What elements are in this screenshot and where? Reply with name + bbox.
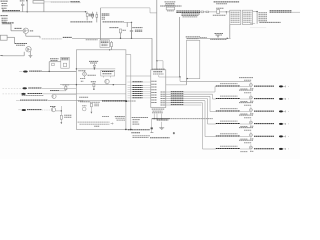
row1 wire bbox=[42, 87, 76, 89]
connector small bbox=[52, 63, 55, 65]
signal wire 5 bbox=[166, 100, 216, 136]
junction bbox=[120, 38, 132, 39]
wire bbox=[26, 34, 40, 39]
wire bbox=[2, 52, 25, 56]
wire bbox=[156, 114, 158, 119]
wire bbox=[44, 1, 70, 3]
capacitor C3 bbox=[130, 31, 133, 39]
label bbox=[94, 104, 99, 106]
LED row 2 bbox=[216, 90, 289, 101]
label bbox=[86, 39, 98, 41]
label Q1 bbox=[15, 27, 22, 29]
box M2 bbox=[61, 57, 69, 68]
box REG1 bbox=[230, 10, 241, 24]
fan row 8 bbox=[128, 97, 151, 99]
net label row bbox=[42, 38, 63, 40]
row2 dash bbox=[3, 93, 21, 95]
connector oval bbox=[23, 71, 28, 73]
wire bbox=[161, 122, 163, 128]
junction bbox=[256, 11, 257, 12]
wire bbox=[48, 62, 50, 72]
resistor R2 bbox=[92, 12, 94, 19]
fan row 3 bbox=[128, 87, 151, 89]
blob bbox=[151, 127, 153, 129]
wire bbox=[50, 90, 66, 92]
wire bbox=[256, 12, 258, 24]
row1 oval bbox=[23, 87, 27, 89]
wire bbox=[229, 25, 231, 39]
osc Y1 bbox=[217, 35, 219, 37]
connector J2 pin list bbox=[1, 16, 9, 23]
U2 left pins bbox=[151, 81, 157, 102]
fan row 2 bbox=[128, 85, 151, 87]
row2 oval bbox=[21, 93, 25, 95]
box M3 bbox=[101, 70, 115, 76]
capacitor C2 bbox=[28, 52, 32, 59]
wire topH bbox=[101, 7, 151, 9]
row1 dash bbox=[3, 87, 22, 89]
fan row 6 bbox=[128, 93, 151, 95]
net label IGN bbox=[2, 22, 14, 24]
label bottom bbox=[259, 21, 280, 23]
junction bbox=[109, 49, 110, 50]
label row dark bbox=[128, 129, 150, 131]
REG1 pins bbox=[231, 12, 240, 22]
net label VCC_5V bbox=[70, 1, 80, 3]
junction bbox=[27, 11, 28, 12]
label M1 bbox=[101, 41, 109, 46]
label R3box bbox=[186, 37, 200, 39]
LED row 3 bbox=[216, 103, 289, 114]
junction bbox=[76, 84, 77, 85]
junction bbox=[76, 68, 95, 69]
wire bbox=[217, 37, 219, 38]
label cluster bbox=[165, 2, 176, 5]
label 2row bbox=[133, 136, 151, 138]
wire bbox=[2, 24, 24, 31]
wire bbox=[56, 94, 76, 96]
transistor Q5 bbox=[51, 108, 55, 112]
top label2 bbox=[216, 3, 227, 5]
wire W2 bbox=[72, 37, 152, 39]
label M3 bbox=[102, 72, 114, 74]
label bbox=[131, 132, 140, 134]
net label GATE_ON bbox=[63, 36, 72, 38]
label J5 bbox=[50, 59, 59, 61]
label C3 value bbox=[135, 30, 143, 31]
diode D1 bbox=[93, 64, 95, 69]
signal wire 2 bbox=[166, 94, 216, 99]
wire bbox=[151, 119, 153, 133]
plus mark bbox=[173, 132, 175, 134]
wire bbox=[124, 21, 132, 23]
LED row 6 bbox=[216, 140, 289, 151]
label relay bbox=[89, 61, 98, 63]
net label PWR_IN bbox=[2, 10, 20, 12]
row3 dash bbox=[16, 99, 20, 101]
wire bbox=[60, 84, 126, 86]
wire y76 bbox=[126, 75, 151, 77]
transistor Q4 bbox=[105, 79, 109, 83]
row2 sublabel bbox=[22, 95, 44, 97]
component U0 box bbox=[33, 1, 44, 4]
wire bbox=[43, 3, 45, 12]
REG2 pins bbox=[243, 12, 251, 22]
label bbox=[200, 37, 207, 39]
pin list right bbox=[259, 13, 268, 21]
U2 bottom pin text bbox=[152, 109, 165, 113]
net text B bbox=[182, 14, 201, 17]
resistor R8 bbox=[60, 115, 62, 122]
top label bbox=[214, 1, 240, 3]
U2 title bbox=[153, 72, 164, 74]
gnd tick bbox=[150, 132, 153, 134]
wire bbox=[42, 70, 76, 72]
label Q5 bbox=[50, 106, 56, 108]
U2 right pins bbox=[161, 92, 166, 105]
resistor R6 bbox=[65, 85, 67, 91]
label bbox=[133, 123, 140, 125]
wire bbox=[292, 11, 300, 13]
note text bbox=[78, 122, 114, 124]
capacitor C1 bbox=[21, 2, 24, 12]
junction bbox=[227, 38, 228, 39]
label M2 bbox=[62, 59, 69, 60]
junction bbox=[125, 129, 132, 131]
label bbox=[213, 14, 226, 16]
net text C bbox=[270, 11, 292, 12]
wire jog150 bbox=[149, 8, 151, 13]
diode D2 bbox=[200, 11, 206, 13]
junction bbox=[154, 118, 163, 119]
U4 interior circ bbox=[82, 106, 86, 111]
label bbox=[80, 101, 90, 103]
wire bbox=[179, 17, 181, 77]
wire bbox=[7, 37, 14, 43]
connector J1 pin list bbox=[1, 1, 9, 8]
label lamp bbox=[78, 70, 86, 72]
wire bbox=[250, 23, 255, 25]
label lamp2 bbox=[80, 78, 86, 80]
junction bbox=[131, 22, 132, 23]
M3 stubs bbox=[104, 76, 111, 78]
gnd bus bbox=[152, 118, 171, 120]
label bbox=[157, 119, 169, 121]
wire bus1 bbox=[2, 11, 87, 13]
wire bbox=[131, 22, 133, 38]
label bbox=[94, 125, 99, 127]
U4 interior res bbox=[91, 103, 93, 114]
resistor R5 bbox=[111, 41, 113, 50]
row VBAT dash bbox=[19, 70, 22, 72]
transistor Q2 bbox=[26, 47, 31, 52]
signal wire 6 bbox=[166, 102, 216, 149]
junction bbox=[93, 89, 94, 90]
bottom label row bbox=[78, 100, 136, 102]
fan row 7 bbox=[128, 95, 151, 97]
LED row 5 bbox=[216, 128, 289, 140]
row4 label bbox=[27, 109, 42, 111]
fan row 4 bbox=[128, 89, 151, 91]
wire stub bbox=[186, 79, 188, 85]
transistor Q3 bbox=[52, 94, 56, 98]
fuse F2 bbox=[206, 11, 217, 13]
label F1 bbox=[167, 10, 174, 12]
net label box bbox=[88, 74, 96, 76]
wire bbox=[151, 38, 153, 70]
box U2 bbox=[151, 70, 166, 108]
label bbox=[102, 117, 125, 121]
junction bbox=[113, 84, 114, 85]
wire bbox=[161, 114, 163, 119]
resistor R3 bbox=[96, 12, 98, 23]
wire row2r bbox=[166, 84, 187, 86]
box U4 main bbox=[76, 50, 126, 130]
connector P3 box bbox=[0, 35, 7, 40]
junction bbox=[26, 0, 27, 1]
row2 wire bbox=[43, 93, 126, 95]
terminal arrow bbox=[0, 55, 3, 57]
junction bbox=[85, 11, 86, 12]
resistor R4 bbox=[119, 29, 121, 38]
fan row 1 bbox=[128, 81, 151, 83]
junction bbox=[61, 110, 62, 111]
wire bbox=[100, 8, 102, 40]
junction bbox=[226, 11, 227, 12]
down arrow bbox=[60, 122, 62, 124]
U3 label block bbox=[102, 14, 110, 19]
wire jog bbox=[126, 55, 131, 130]
wire faint bbox=[250, 27, 266, 29]
label bbox=[132, 117, 149, 119]
transistor Q1 bbox=[23, 28, 28, 33]
row3 label bbox=[20, 99, 48, 101]
label bbox=[216, 7, 224, 9]
label R8 bbox=[64, 115, 72, 117]
fan row 5 bbox=[128, 91, 151, 93]
net label light bbox=[51, 1, 70, 3]
row4 wire bbox=[42, 109, 51, 111]
label Q1 value bbox=[30, 30, 33, 32]
resistor R7 bbox=[93, 83, 95, 89]
wire bbox=[70, 2, 80, 4]
row2 label bbox=[28, 93, 43, 95]
label C3 bbox=[132, 27, 142, 29]
row3 wire bbox=[48, 99, 126, 101]
resistor R1 bbox=[86, 12, 88, 21]
net label row3 bbox=[103, 21, 124, 23]
junction+bend bbox=[156, 60, 163, 70]
label bbox=[133, 121, 139, 123]
row1 label bbox=[28, 87, 41, 89]
LED row 1 bbox=[216, 78, 289, 89]
lamp DS1 bbox=[83, 70, 87, 77]
label R6 bbox=[63, 84, 70, 86]
LED row 4 bbox=[216, 115, 289, 126]
wire bbox=[153, 114, 155, 119]
wire bbox=[226, 11, 229, 13]
row4 oval bbox=[22, 109, 26, 111]
wire row1r bbox=[159, 75, 251, 81]
wire bbox=[150, 12, 157, 14]
label bbox=[50, 90, 59, 92]
inductor L1 bbox=[217, 9, 227, 13]
wire W4 bbox=[187, 37, 231, 39]
label R7 bbox=[91, 81, 96, 83]
wire bbox=[26, 1, 28, 12]
label bbox=[210, 38, 226, 40]
label R4 bbox=[109, 27, 118, 29]
signal wire 1 bbox=[166, 87, 216, 93]
row4 dash bbox=[18, 109, 21, 111]
box K1 bbox=[187, 40, 200, 78]
wire inner bbox=[76, 68, 115, 70]
sub box bbox=[63, 63, 66, 66]
label R4 value bbox=[123, 29, 127, 31]
label wide bbox=[160, 5, 181, 7]
junction blob bbox=[125, 100, 127, 102]
label bbox=[90, 101, 100, 103]
net label row2 bbox=[70, 21, 92, 23]
label osc bbox=[215, 34, 224, 36]
wire bbox=[253, 11, 258, 13]
ground bbox=[81, 80, 84, 82]
signal wire 4 bbox=[166, 98, 216, 124]
dashed net row bbox=[171, 118, 213, 120]
net label VBAT bbox=[29, 70, 42, 72]
signal wire 7 bbox=[166, 104, 202, 106]
label row bbox=[150, 137, 170, 139]
wire bbox=[49, 61, 61, 63]
junction bbox=[49, 71, 50, 72]
capacitor C1 label bbox=[20, 0, 25, 2]
label R1 bbox=[89, 14, 94, 16]
wire bbox=[156, 0, 158, 70]
ground GND1 bbox=[159, 128, 164, 130]
net text A bbox=[176, 11, 200, 13]
wire bbox=[56, 106, 62, 115]
wire bbox=[225, 12, 227, 15]
U2 top pins bbox=[152, 68, 166, 70]
wire boxbottom ext bbox=[126, 128, 132, 130]
junction bbox=[187, 78, 188, 79]
wire bbox=[126, 22, 128, 27]
box REG2 bbox=[243, 10, 253, 24]
box F1 bbox=[166, 7, 175, 10]
label Q2 bbox=[15, 44, 28, 46]
box M1 bbox=[100, 40, 109, 48]
label bbox=[133, 119, 141, 121]
signal wire 3 bbox=[166, 96, 216, 112]
label bbox=[79, 96, 88, 98]
wire bbox=[106, 84, 108, 85]
wire bbox=[2, 9, 4, 12]
